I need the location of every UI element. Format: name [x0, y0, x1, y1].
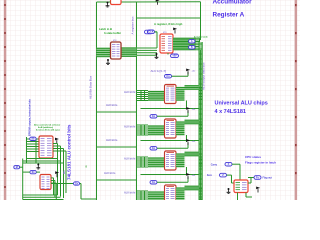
ladder rungs near chip 4: [199, 188, 202, 200]
ground below A register: [155, 53, 159, 59]
IC U1 register chip (cut off at top): [108, 0, 122, 5]
svg-text:Flags register in latch: Flags register in latch: [245, 161, 276, 165]
bus: latch right output bus: [121, 32, 157, 57]
net label oval (latch enable): [145, 30, 158, 34]
net label 2 + wire: [207, 173, 234, 183]
power flag above U9: [55, 171, 59, 177]
sheet background: [0, 0, 300, 200]
power flag on top wire: [156, 0, 160, 5]
svg-text:4 x 74LS181: 4 x 74LS181: [215, 109, 247, 115]
svg-text:ALU Bit Data Bus: ALU Bit Data Bus: [89, 75, 93, 99]
power flag above A register: [173, 28, 177, 34]
power flag above chip 3: [186, 139, 190, 145]
green comment text 3 lines: [34, 124, 60, 132]
bus: ALU chip 1 left input staircase: [137, 91, 165, 101]
svg-text:ALU bit hi: ALU bit hi: [124, 91, 136, 94]
power flag below right of flags chip: [256, 187, 260, 193]
power flag above chip 4: [186, 173, 190, 179]
svg-text:Cn: Cn: [166, 75, 170, 78]
wire: bus tap y=180: [97, 179, 137, 181]
svg-text:Flag out: Flag out: [263, 177, 272, 180]
bus: U8 left pin lines: [27, 139, 40, 152]
svg-text:3-state buffer: 3-state buffer: [104, 31, 121, 35]
svg-text:A regist bank: A regist bank: [194, 36, 209, 39]
wire: vertical x=22.7: [22, 159, 24, 200]
wire: inter-stage link above chip 3: [141, 140, 200, 142]
svg-text:ALU bit lo: ALU bit lo: [104, 172, 116, 175]
svg-text:M: M: [16, 166, 18, 169]
svg-text:CPU status: CPU status: [245, 155, 261, 159]
IC U2 latch 74LS373: [111, 42, 122, 59]
power flag above chip 2: [186, 107, 190, 113]
ground below top wire: [106, 2, 110, 8]
svg-text:Cn: Cn: [75, 182, 79, 185]
net label right + wire: [248, 176, 272, 183]
svg-text:ALU b [0..7]: ALU b [0..7]: [151, 69, 167, 73]
bus: ALU chip 2 left input staircase: [137, 125, 165, 135]
svg-text:74LS181 ALU control bits: 74LS181 ALU control bits: [67, 124, 72, 180]
staircase right of U8 (long verticals): [53, 144, 66, 199]
svg-text:ALU bit hi: ALU bit hi: [124, 158, 136, 161]
svg-text:ALU bit lo: ALU bit lo: [106, 139, 118, 142]
wire: U9 output to In C label, down to bottom rail: [51, 184, 97, 200]
bus: ALU chip 4 right output bus: [176, 186, 199, 204]
svg-text:Accumulator: Accumulator: [213, 0, 253, 5]
net label Flag in + wire: [211, 162, 240, 180]
power flag right of U8: [55, 138, 59, 144]
sheet frame right bar: [295, 0, 298, 200]
svg-text:Register A: Register A: [213, 11, 245, 18]
svg-text:A register bus: A register bus: [131, 16, 135, 34]
net label below A register: [168, 53, 179, 58]
net label left of U8: [30, 137, 36, 140]
IC U3 A-register (highlighted): [160, 34, 173, 53]
svg-text:ALU bit hi: ALU bit hi: [124, 126, 136, 129]
net label into A register: [148, 30, 158, 34]
ladder rungs near chip 2: [199, 122, 202, 134]
bus: latch left input bus: [97, 48, 111, 57]
IC U8 control latch upper 74LS181 section: [39, 136, 53, 158]
svg-text:A: A: [191, 40, 193, 43]
IC U5 74LS181 ALU chip 2: [165, 119, 177, 138]
wire: vertical x=26.5: [26, 137, 28, 163]
wire: bus tap y=147: [97, 146, 137, 148]
svg-text:Mn: Mn: [63, 170, 66, 174]
net label + wire into chip 1: [165, 72, 189, 78]
svg-text:B: B: [191, 46, 193, 49]
svg-text:A register, 8 bits high: A register, 8 bits high: [154, 22, 183, 26]
svg-text:Cn: Cn: [152, 115, 156, 118]
svg-text:+5V: +5V: [172, 55, 177, 58]
svg-text:CLK: CLK: [149, 31, 154, 34]
IC U6 74LS181 ALU chip 3: [165, 151, 177, 170]
wire: below flags chip: [238, 193, 253, 201]
wire: main vertical bus net B (x=96.5): [96, 2, 98, 200]
ground left of flags chip: [227, 188, 231, 194]
ground below latch: [106, 59, 110, 65]
IC U4 74LS181 ALU chip 1: [165, 85, 177, 104]
net label In C: [74, 182, 80, 186]
wire: vertical feed to ALU (x=200.5): [200, 2, 202, 40]
bus: ALU chip 3 right output bus: [176, 152, 199, 174]
power flag above chip 1: [186, 69, 190, 75]
ladder rungs near chip 3: [199, 154, 202, 166]
svg-text:Zero: Zero: [207, 174, 213, 177]
net label left of U9 + wire: [23, 170, 40, 174]
svg-text:Latch in B: Latch in B: [99, 27, 112, 31]
IC U10 flags latch: [234, 180, 248, 193]
net label + wire into chip 4: [150, 177, 188, 184]
IC U7 74LS181 ALU chip 4: [165, 185, 177, 204]
bus: ALU chip 3 left input staircase: [137, 157, 165, 167]
svg-text:Cn: Cn: [152, 147, 156, 150]
wire: vertical x=36: [35, 139, 37, 163]
net label far left: [14, 166, 23, 169]
bus: A register output bus: [173, 38, 200, 51]
wire: inter-stage link above chip 2: [141, 108, 200, 110]
sheet frame left bar: [4, 0, 7, 200]
svg-text:A minus B etc (16 ops): A minus B etc (16 ops): [36, 129, 60, 132]
ladder rungs near chip 1: [199, 88, 202, 100]
net label on output bus 2: [189, 46, 196, 49]
bus: ALU chip 4 left input staircase: [137, 191, 165, 201]
staircase right of U9 + bottom loops: [23, 178, 64, 200]
net label on output bus 1: [189, 40, 196, 43]
net label + wire into chip 3: [150, 143, 188, 150]
net label + wire into chip 2: [150, 111, 188, 118]
svg-text:ALU bit lo: ALU bit lo: [106, 104, 118, 107]
wire: horizontal link y=18: [137, 17, 201, 19]
bus: ALU chip 2 right output bus: [176, 120, 199, 142]
svg-text:Universal ALU chips: Universal ALU chips: [215, 101, 268, 107]
svg-text:Carry: Carry: [211, 163, 218, 166]
wire: main vertical bus net D (x=136.5): [136, 2, 138, 200]
svg-text:Cn: Cn: [152, 181, 156, 184]
wire: inter-stage link above chip 4: [141, 174, 200, 176]
ground between control chips: [36, 164, 40, 170]
wire: bus tap y=112: [97, 111, 137, 113]
svg-text:EPROM outputs, instruction bit: EPROM outputs, instruction bits: [29, 99, 32, 136]
IC U9 control latch lower: [40, 175, 51, 190]
bus: ALU chip 1 right output bus: [176, 85, 199, 107]
bus: ALU output ladder bundle (x=194..200.5): [199, 42, 203, 200]
wire: horizontals between control chips: [23, 159, 64, 164]
wire: top horizontal net from accumulator (y=2): [97, 1, 201, 3]
svg-text:ALU bit hi: ALU bit hi: [124, 192, 136, 195]
svg-text:ALU output data bus: ALU output data bus: [201, 62, 205, 90]
